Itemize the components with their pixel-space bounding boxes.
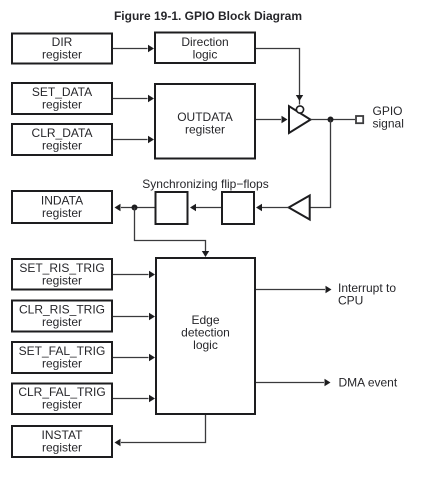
DIR register box: [12, 34, 112, 64]
node junction on INDATA wire: [132, 205, 138, 211]
svg-text:logic: logic: [193, 338, 218, 352]
svg-text:register: register: [42, 357, 82, 371]
wire CLR_RIS_TRIG to edge detection logic: [113, 313, 155, 320]
svg-text:CPU: CPU: [338, 294, 363, 308]
CLR_DATA register box: [12, 124, 112, 155]
INDATA register box: [12, 191, 112, 223]
SET_FAL_TRIG register box: [12, 342, 112, 373]
svg-text:register: register: [42, 315, 82, 329]
svg-text:Synchronizing flip−flops: Synchronizing flip−flops: [142, 177, 268, 191]
synchronizing flip-flop 2 box: [222, 192, 254, 224]
input buffer: [289, 196, 310, 220]
svg-text:Figure 19-1. GPIO Block Diagra: Figure 19-1. GPIO Block Diagram: [114, 9, 302, 23]
wire SET_DATA register to OUTDATA register: [113, 95, 154, 102]
wire flip-flop 2 to flip-flop 1: [190, 204, 221, 211]
GPIO signal label: [373, 104, 404, 131]
wire CLR_FAL_TRIG to edge detection logic: [113, 395, 155, 402]
svg-text:DMA event: DMA event: [339, 376, 398, 390]
svg-text:register: register: [42, 274, 82, 288]
output tri-state buffer: [289, 106, 311, 133]
svg-text:register: register: [42, 98, 82, 112]
Direction logic box: [155, 33, 255, 64]
Interrupt to CPU label: [338, 281, 396, 308]
wire edge detection logic to DMA event: [256, 379, 331, 386]
wire DIR register to Direction logic: [113, 45, 154, 52]
CLR_RIS_TRIG register box: [12, 301, 112, 332]
SET_DATA register box: [12, 83, 112, 114]
wire GPIO node to input buffer: [310, 120, 331, 208]
wire CLR_DATA register to OUTDATA register: [113, 136, 154, 143]
Edge detection logic box: [156, 258, 255, 414]
CLR_FAL_TRIG register box: [12, 384, 112, 415]
SET_RIS_TRIG register box: [12, 259, 112, 290]
wire flip-flop 1 to INDATA register: [115, 204, 155, 211]
OUTDATA register box: [155, 84, 255, 159]
wire OUTDATA register to output buffer: [256, 116, 288, 123]
svg-text:register: register: [185, 123, 225, 137]
wire edge detection logic to INSTAT register: [115, 415, 206, 446]
wire Direction logic to output buffer enable: [256, 49, 303, 105]
enable bubble on output buffer: [296, 106, 303, 113]
synchronizing flip-flop 1 box: [156, 192, 188, 224]
wire edge detection logic to Interrupt to CPU: [256, 286, 332, 293]
GPIO pad square: [356, 116, 363, 123]
svg-text:register: register: [42, 48, 82, 62]
node junction at GPIO output: [328, 117, 334, 123]
svg-text:signal: signal: [373, 117, 404, 131]
svg-text:register: register: [42, 139, 82, 153]
wire INDATA node to edge detection logic: [135, 208, 210, 258]
wire output buffer to GPIO pad: [311, 119, 356, 121]
svg-text:logic: logic: [193, 48, 218, 62]
wire SET_RIS_TRIG to edge detection logic: [113, 271, 155, 278]
svg-text:register: register: [42, 398, 82, 412]
wire SET_FAL_TRIG to edge detection logic: [113, 354, 155, 361]
wire input buffer to flip-flop 2: [256, 204, 289, 211]
INSTAT register box: [12, 426, 112, 457]
svg-text:register: register: [42, 441, 82, 455]
svg-text:register: register: [42, 206, 82, 220]
